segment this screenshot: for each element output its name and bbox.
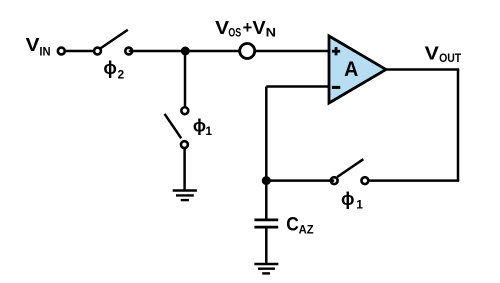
svg-text:V: V [26, 34, 41, 55]
label phi2 [103, 58, 124, 81]
switch S2 phi1a bottom contact [181, 141, 188, 148]
node junction B (feedback/cap) [262, 176, 271, 185]
wire capacitor to ground [265, 228, 268, 264]
svg-text:C: C [286, 213, 299, 235]
svg-text:N: N [266, 27, 276, 40]
source VOS+VN (circle) [240, 44, 255, 59]
svg-text:OUT: OUT [439, 52, 462, 65]
svg-text:ϕ: ϕ [341, 189, 355, 209]
switch S3 phi1b right contact [361, 177, 368, 184]
svg-text:1: 1 [205, 124, 212, 138]
wire junction A down to switch phi1a [184, 51, 187, 108]
svg-text:2: 2 [118, 67, 125, 81]
op-amp + input marker [332, 47, 340, 55]
ground GND1 (below phi1a) [173, 191, 197, 201]
svg-text:OS: OS [228, 27, 241, 40]
wire VOUT down right side [457, 70, 460, 181]
switch S2 phi1a top contact [181, 107, 188, 114]
svg-text:+: + [243, 19, 253, 37]
switch S1 phi2 arm (open) [100, 30, 127, 49]
wire junction B up to - input row [265, 87, 268, 181]
op-amp - input marker [332, 86, 340, 89]
svg-text:ϕ: ϕ [193, 115, 206, 135]
capacitor CAZ [254, 220, 278, 227]
op-amp U1 [329, 36, 386, 103]
svg-text:V: V [425, 42, 440, 63]
switch S3 phi1b arm (open) [337, 159, 363, 177]
node junction A (top) [181, 47, 190, 56]
label CAZ [286, 213, 314, 236]
switch S1 phi2 right contact [125, 48, 132, 55]
switch S1 phi2 left contact [94, 48, 101, 55]
label VOUT [425, 42, 462, 65]
switch S3 phi1b left contact [331, 177, 338, 184]
wire switch phi1a to ground [183, 148, 186, 191]
svg-text:A: A [344, 58, 358, 81]
ground GND2 (below CAZ) [254, 264, 278, 273]
svg-text:IN: IN [39, 45, 50, 59]
wire switch phi2 to noise source [129, 50, 240, 53]
wire noise source to op-amp + input [255, 50, 329, 53]
switch S2 phi1a arm (open) [165, 114, 182, 138]
wire switch phi1b to junction B [266, 179, 334, 182]
wire op-amp output to VOUT corner [386, 68, 459, 71]
label phi1 (left switch) [193, 115, 213, 138]
label VIN [26, 34, 51, 59]
svg-text:V: V [252, 17, 266, 38]
node VIN input terminal [58, 48, 65, 55]
svg-text:AZ: AZ [299, 223, 314, 237]
label VOS + VN [215, 17, 276, 39]
svg-text:ϕ: ϕ [103, 58, 117, 78]
wire feedback to op-amp - input [266, 85, 329, 88]
wire VIN terminal to switch phi2 left contact [61, 50, 97, 53]
wire junction B down to capacitor [265, 181, 268, 219]
svg-text:1: 1 [356, 198, 363, 212]
label phi1 (feedback switch) [341, 189, 363, 212]
wire bottom right to switch phi1b [368, 179, 459, 182]
